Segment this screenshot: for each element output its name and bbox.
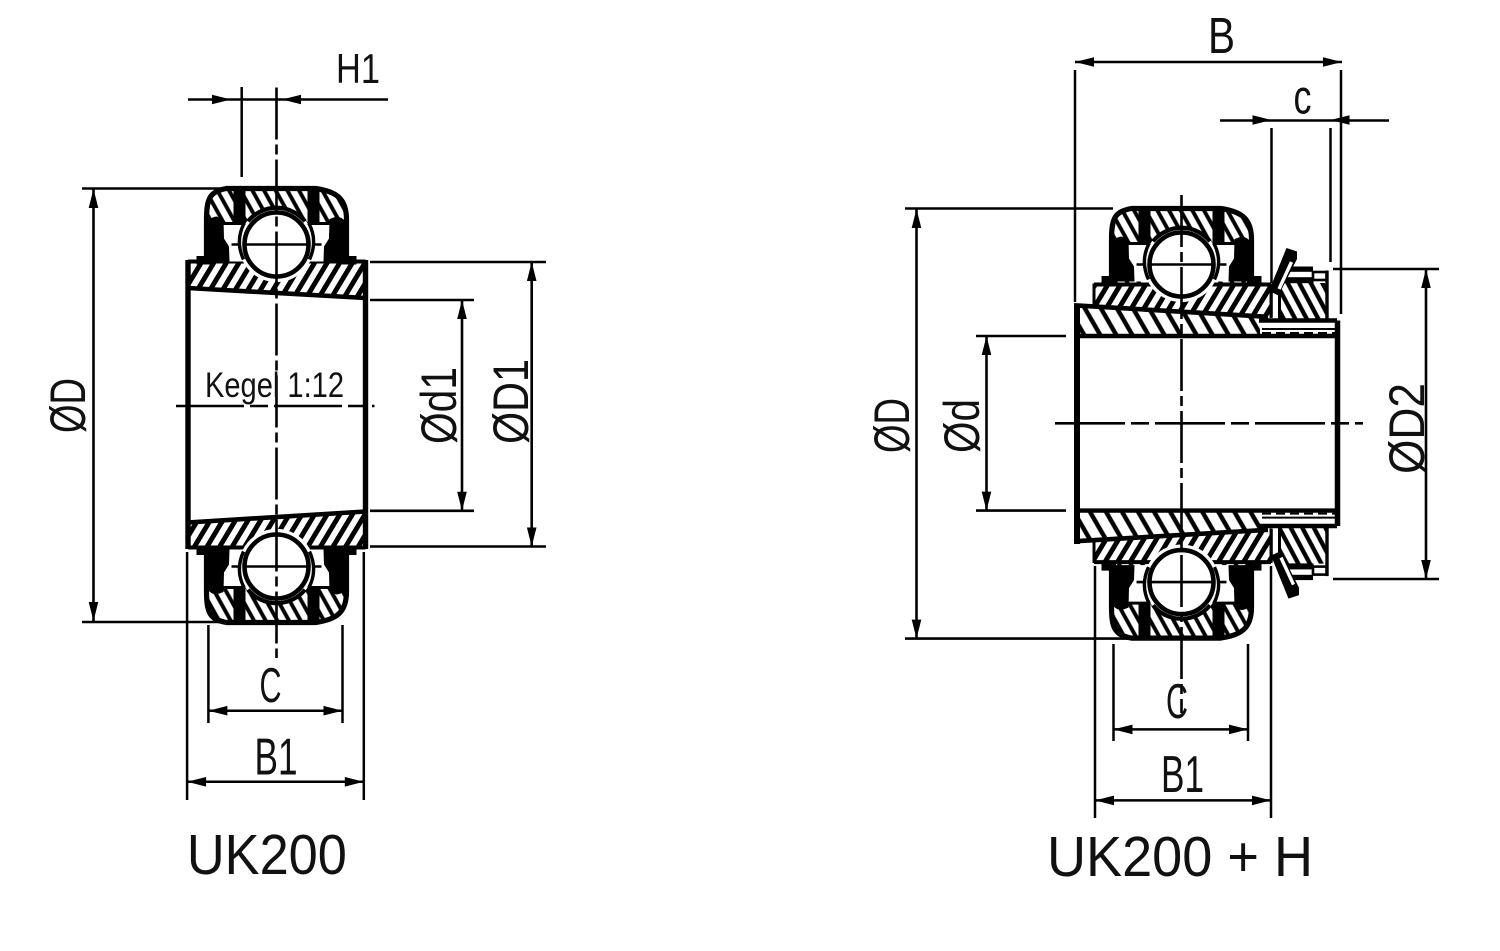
sleeve bottom band hatch bbox=[1075, 511, 1268, 542]
D dimension bbox=[82, 187, 242, 190]
bottom bearing bbox=[207, 548, 347, 623]
D2 dimension bbox=[1333, 268, 1439, 271]
svg-text:Ød1: Ød1 bbox=[411, 367, 467, 444]
d dimension bbox=[976, 335, 1066, 338]
svg-text:Ød: Ød bbox=[934, 399, 990, 453]
band outlines bbox=[188, 260, 366, 264]
centre lines bbox=[1180, 195, 1183, 713]
svg-text:ØD1: ØD1 bbox=[483, 359, 539, 444]
d1 dimension bbox=[370, 299, 474, 302]
B1 dimension bbox=[186, 552, 189, 800]
svg-text:UK200: UK200 bbox=[187, 823, 347, 887]
svg-text:c: c bbox=[1294, 72, 1312, 125]
C dimension bbox=[207, 625, 210, 723]
svg-text:H1: H1 bbox=[336, 45, 380, 92]
svg-text:B: B bbox=[1208, 7, 1235, 64]
inner ring top band hatch bbox=[188, 262, 366, 299]
D dimension bbox=[905, 207, 1113, 210]
nut top bbox=[1280, 283, 1328, 319]
nut bottom bbox=[1280, 528, 1328, 564]
C dimension bbox=[1112, 644, 1115, 741]
inner ring bands bbox=[1094, 285, 1271, 318]
svg-text:B1: B1 bbox=[255, 729, 298, 787]
lock washer slot lines bbox=[1270, 285, 1273, 562]
svg-text:ØD2: ØD2 bbox=[1379, 383, 1435, 474]
svg-text:C: C bbox=[260, 659, 282, 713]
B1 dimension bbox=[1094, 566, 1097, 818]
thread lines bbox=[1259, 318, 1337, 322]
ring faces bbox=[185, 260, 190, 549]
centre lines bbox=[275, 88, 278, 659]
inner ring bottom band hatch bbox=[188, 512, 366, 548]
bottom bearing bbox=[1112, 563, 1252, 638]
svg-text:C: C bbox=[1166, 675, 1188, 729]
sleeve top band hatch bbox=[1075, 305, 1268, 336]
svg-text:UK200 + H: UK200 + H bbox=[1047, 825, 1313, 889]
top bearing bbox=[1112, 209, 1252, 284]
svg-text:B1: B1 bbox=[1161, 746, 1204, 804]
D1 dimension bbox=[370, 261, 546, 264]
top bearing bbox=[207, 189, 347, 264]
svg-text:Kegel 1:12: Kegel 1:12 bbox=[205, 366, 344, 405]
thread area white covers bbox=[1260, 321, 1337, 337]
svg-text:ØD: ØD bbox=[864, 398, 920, 453]
sleeve outlines bbox=[1074, 305, 1268, 317]
washer tab top bbox=[1269, 248, 1297, 296]
svg-text:ØD: ØD bbox=[40, 378, 96, 433]
